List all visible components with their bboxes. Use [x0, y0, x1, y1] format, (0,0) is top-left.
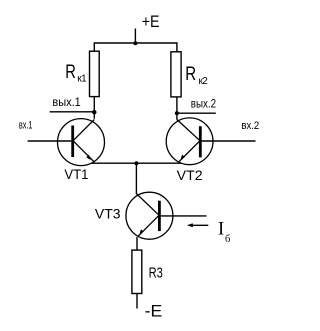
junction top [133, 41, 137, 45]
junction out2 [175, 111, 179, 115]
wire VT3 emitter to R3 [136, 237, 138, 250]
wire top rail [94, 43, 177, 52]
junction emitters [134, 161, 138, 165]
wire input 2 [202, 140, 256, 142]
svg-text:вых.1: вых.1 [52, 95, 81, 109]
wire input 1 [28, 140, 72, 142]
svg-text:R: R [65, 62, 76, 83]
svg-text:-E: -E [145, 303, 163, 321]
transistor VT2 [166, 118, 213, 165]
resistor Rk1 [90, 51, 100, 96]
svg-text:к2: к2 [199, 76, 209, 87]
junction out1 [92, 110, 96, 114]
label Rk1 [65, 62, 87, 85]
label Rk2 [185, 64, 208, 87]
svg-text:R3: R3 [149, 264, 163, 281]
svg-text:I: I [218, 220, 224, 240]
wire VT3 base [161, 215, 207, 217]
wire +E stub [134, 29, 136, 44]
svg-text:вых.2: вых.2 [191, 97, 217, 111]
label Ib [218, 220, 230, 246]
wire output 1 [50, 111, 95, 113]
svg-text:к1: к1 [77, 74, 87, 85]
svg-text:R: R [185, 64, 196, 85]
wire Rk2 to VT2 collector [176, 97, 178, 120]
svg-text:б: б [225, 234, 230, 245]
svg-text:вх.2: вх.2 [241, 120, 259, 132]
wire Rk1 to VT1 collector [93, 97, 95, 119]
svg-text:VT3: VT3 [95, 206, 121, 222]
wire emitter rail [91, 162, 181, 164]
svg-text:VT1: VT1 [64, 166, 88, 182]
wire to VT3 collector [135, 163, 137, 194]
svg-text:+E: +E [142, 12, 160, 31]
arrow Ib [187, 223, 209, 227]
svg-text:вх.1: вх.1 [19, 120, 33, 132]
resistor Rk2 [171, 52, 181, 97]
wire R3 to -E [136, 294, 138, 309]
wire output 2 [177, 112, 216, 114]
resistor R3 [132, 250, 142, 293]
transistor VT3 [126, 192, 173, 239]
svg-text:VT2: VT2 [177, 167, 203, 183]
transistor VT1 [58, 119, 105, 166]
